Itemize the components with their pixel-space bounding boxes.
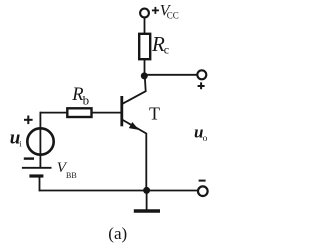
svg-text:CC: CC (167, 11, 179, 21)
svg-text:BB: BB (66, 171, 77, 180)
svg-text:i: i (19, 139, 22, 149)
svg-text:o: o (203, 134, 208, 144)
svg-text:b: b (83, 93, 90, 108)
svg-text:c: c (164, 43, 169, 57)
svg-text:(a): (a) (108, 224, 127, 243)
svg-text:T: T (149, 104, 160, 124)
